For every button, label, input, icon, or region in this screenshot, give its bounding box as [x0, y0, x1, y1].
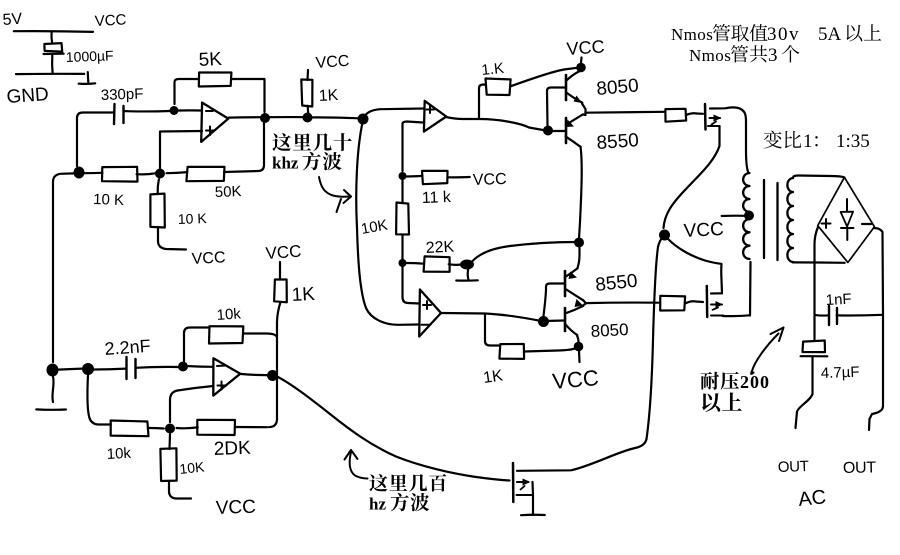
svg-text:4.7µF: 4.7µF: [821, 364, 860, 382]
resistor R13 10k: [111, 421, 149, 437]
wire main out: [303, 116, 360, 119]
wire VCC 1k stub: [306, 70, 309, 80]
svg-text:200: 200: [740, 372, 770, 392]
wire minus input U1: [171, 109, 202, 112]
wire pair2 emitters: [583, 300, 586, 306]
svg-text:2DK: 2DK: [213, 438, 251, 460]
svg-text:OUT: OUT: [843, 459, 877, 477]
wire divider mid: [401, 180, 403, 203]
wire bridge left down: [815, 227, 819, 337]
svg-text:10k: 10k: [106, 445, 132, 463]
bridge plus: [825, 219, 827, 228]
capacitor C3 2.2nF: [125, 357, 127, 379]
svg-text:VCC: VCC: [191, 249, 226, 268]
svg-text:22K: 22K: [425, 239, 455, 257]
svg-text:1K: 1K: [291, 284, 316, 306]
svg-text:11 k: 11 k: [422, 189, 453, 207]
wire U2 out stub: [240, 374, 268, 375]
svg-text:hz: hz: [369, 495, 386, 514]
node C1 VCC: [576, 63, 586, 73]
wire right out: [869, 315, 883, 430]
wire A6 sweep to U4 minus: [356, 125, 419, 325]
svg-text:VCC: VCC: [215, 497, 256, 519]
wire node A6 to comparator U3: [363, 109, 424, 120]
resistor R7 11K: [407, 175, 423, 178]
node F5 U2 out: [267, 370, 278, 381]
wire U1 output: [229, 116, 303, 119]
node B2: [399, 259, 407, 267]
svg-text:1: 1: [803, 131, 813, 152]
wire C2 left: [77, 113, 114, 167]
svg-text:10 K: 10 K: [178, 210, 208, 227]
wire Q2 collector down: [579, 147, 582, 242]
svg-text:5A: 5A: [818, 24, 842, 45]
node E2 center tap: [744, 211, 754, 221]
node C3 mid: [574, 238, 584, 248]
svg-text:1.K: 1.K: [481, 60, 505, 79]
resistor R17 1K vertical: [279, 262, 281, 279]
wire bridge right down: [874, 228, 883, 315]
wire primary bottom: [749, 262, 752, 316]
mosfet M2: [704, 104, 707, 130]
node A6: [358, 114, 369, 125]
mosfet M1: [706, 286, 709, 317]
svg-text:Nmos: Nmos: [689, 46, 731, 65]
wire divider bottom: [403, 267, 420, 304]
svg-text:2.2nF: 2.2nF: [104, 336, 151, 359]
arrow hz: [345, 450, 352, 460]
wire VCC stub: [50, 32, 53, 43]
resistor R15 10K vertical: [168, 434, 171, 449]
transistor Q1 8050: [565, 75, 568, 100]
wire F2 to cap: [94, 368, 126, 371]
svg-text:VCC: VCC: [473, 171, 507, 189]
svg-text:10 K: 10 K: [93, 191, 124, 209]
svg-text:5K: 5K: [198, 49, 223, 71]
svg-text:330pF: 330pF: [101, 86, 144, 104]
node A3: [170, 106, 179, 115]
resistor R12 gate1: [660, 296, 685, 311]
wire U2 out long curve: [278, 377, 510, 481]
node B3: [460, 260, 474, 270]
svg-text:Nmos: Nmos: [671, 25, 713, 44]
text bianbi: [764, 130, 782, 148]
svg-text:VCC: VCC: [683, 219, 724, 242]
svg-text:10K: 10K: [179, 458, 206, 477]
wire base2 link: [544, 284, 565, 317]
arrow khz: [319, 177, 351, 197]
wire secondary bottom: [793, 261, 845, 264]
capacitor C4 1nF: [828, 306, 830, 325]
wire R17 down rail: [269, 302, 281, 427]
ground G4: [521, 514, 545, 517]
wire plus input U1: [160, 131, 202, 168]
svg-text:VCC: VCC: [566, 36, 605, 59]
diode D5 inside: [846, 199, 848, 212]
wire E1 to M1 drain: [668, 239, 721, 264]
wire divider low: [401, 235, 403, 259]
transistor Q3 8550: [564, 271, 567, 296]
wire VCC tap: [722, 215, 745, 218]
transistor Q4 8050: [564, 308, 567, 331]
wire 5V rail: [14, 30, 93, 33]
wire base link: [547, 88, 565, 126]
op-amp U2: [213, 358, 240, 395]
svg-text:VCC: VCC: [265, 242, 302, 263]
resistor R6 10k divider: [396, 203, 409, 235]
svg-text:1000µF: 1000µF: [66, 47, 114, 65]
wire B3 to C-node: [472, 242, 576, 262]
wire GND rail: [16, 73, 84, 76]
wire F3 up: [184, 328, 209, 362]
svg-text:50K: 50K: [215, 183, 242, 201]
text yishang: [702, 393, 720, 412]
svg-text:AC: AC: [797, 486, 827, 511]
wire divider top: [403, 122, 424, 125]
resistor R11 gate2: [665, 109, 686, 122]
text zheli jibai: [369, 474, 387, 491]
wire C4 right: [837, 314, 883, 317]
op-amp U1: [201, 103, 228, 142]
capacitor C1 1000uF: [44, 43, 62, 52]
transformer T1 primary: [743, 173, 749, 212]
svg-text:OUT: OUT: [778, 458, 809, 476]
svg-text:1:35: 1:35: [836, 131, 870, 152]
ground G1: [87, 72, 90, 82]
svg-text:30v: 30v: [767, 24, 800, 45]
arrow naiya: [751, 334, 778, 374]
wire U3 out: [446, 117, 546, 131]
wire VCC stub pair1: [580, 58, 583, 64]
resistor R16 10k fb: [209, 326, 243, 343]
wire M1 drain up: [720, 264, 723, 293]
wire pair2 out: [586, 301, 659, 304]
resistor R2 10k vertical: [158, 179, 159, 193]
ground G3: [467, 269, 470, 279]
resistor R1 10K: [84, 172, 103, 175]
transformer core: [763, 180, 765, 258]
node A1: [74, 167, 85, 179]
wire M2 source: [664, 126, 720, 228]
svg-text:VCC: VCC: [94, 11, 127, 30]
resistor R5 1k vertical: [301, 80, 312, 107]
bridge minus: [862, 223, 871, 225]
wire drain riser: [647, 238, 664, 440]
comparator U3: [424, 101, 446, 132]
node F1: [47, 364, 59, 377]
svg-text:8050: 8050: [596, 75, 640, 100]
svg-text:1K: 1K: [318, 87, 339, 105]
wire F1-F2: [58, 369, 82, 370]
node C2 base: [543, 126, 553, 136]
transformer T1 secondary: [787, 178, 793, 262]
resistor R8 22K: [406, 262, 423, 265]
node F3: [178, 362, 188, 372]
resistor R9 1.K pullup: [479, 85, 486, 119]
wire left drop: [53, 173, 74, 362]
wire F4 up to U2 plus: [170, 386, 213, 422]
svg-text:khz: khz: [272, 154, 299, 173]
comparator U4: [419, 290, 441, 337]
svg-text:8050: 8050: [590, 320, 629, 341]
wire pair1 out: [585, 111, 665, 114]
wire secondary top: [793, 176, 845, 179]
resistor R3 5K: [175, 79, 200, 104]
svg-text:VCC: VCC: [315, 53, 350, 72]
bridge rectifier BR1: [818, 177, 875, 262]
wire VCC stub pair2: [578, 351, 581, 362]
wire C4 left: [815, 314, 829, 317]
wire C3 right: [135, 366, 178, 369]
svg-text:GND: GND: [6, 84, 50, 108]
mosfet M3: [512, 463, 515, 502]
node F2: [82, 363, 94, 375]
svg-text:3: 3: [768, 45, 778, 66]
node B1: [399, 172, 407, 180]
svg-text:8550: 8550: [594, 271, 638, 296]
node D2: [574, 342, 584, 352]
svg-text:10k: 10k: [216, 305, 242, 324]
node D1 base2: [538, 316, 549, 327]
svg-text:1K: 1K: [482, 367, 504, 387]
resistor R4 50K: [167, 172, 188, 173]
resistor R10 1k: [485, 314, 500, 346]
svg-text:8550: 8550: [596, 130, 640, 154]
node A4 U1 out: [260, 113, 270, 123]
wire left out: [796, 394, 813, 428]
transistor Q2 8550: [565, 118, 568, 143]
text naiya 200: [701, 372, 719, 390]
svg-text:VCC: VCC: [551, 365, 600, 394]
wire F3 to U2 minus: [189, 365, 213, 368]
node E1: [659, 230, 670, 241]
node F4: [165, 424, 175, 434]
node A2: [155, 169, 165, 179]
capacitor C5 4.7uF: [813, 337, 815, 341]
wire M3 source: [531, 482, 534, 515]
resistor R14 2DK: [177, 426, 198, 429]
wire C2 right: [125, 110, 170, 113]
capacitor C2 330pF: [113, 104, 116, 124]
wire M1 source: [723, 314, 750, 317]
wire M3 drain: [517, 439, 647, 471]
wire M2 drain: [710, 107, 748, 171]
ground G2: [52, 377, 53, 403]
wire U4 out: [442, 313, 542, 321]
svg-text:5V: 5V: [2, 11, 23, 29]
wire pair1 emitters: [582, 104, 586, 116]
text zheli jishi: [272, 133, 291, 151]
wire F2 down: [87, 375, 111, 425]
node A5: [303, 113, 313, 123]
